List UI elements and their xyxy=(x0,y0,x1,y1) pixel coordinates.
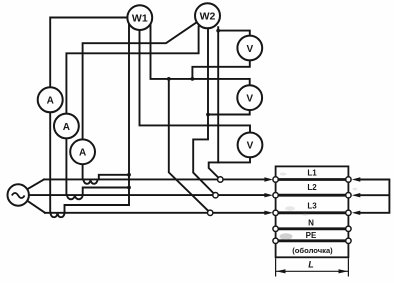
arrow from bracket into right terminal L3 xyxy=(352,211,361,215)
wire W1 bottom-middle vertical to V3 top xyxy=(140,30,251,133)
current transformer bumps phase L1 xyxy=(84,179,98,183)
wire A1 bottom to phase L3 line xyxy=(49,112,51,212)
wire V2 bottom branch xyxy=(208,110,250,114)
voltmeter V2 xyxy=(237,85,262,110)
conductor bar PE xyxy=(276,239,348,242)
svg-text:L1: L1 xyxy=(307,168,317,177)
wire vertical tap to terminal circle 3 xyxy=(169,79,210,213)
terminal right L2 xyxy=(346,193,351,198)
wire A2 bottom to phase L2 line xyxy=(65,138,67,195)
dimension line xyxy=(276,270,349,272)
conductor bar N xyxy=(276,227,348,230)
junction dot phase L1 branch at W1 vertical xyxy=(127,173,131,177)
wire source lower diagonal xyxy=(27,201,45,213)
junction dot on V1 top tap xyxy=(216,29,220,33)
scan noise smudges xyxy=(280,173,358,240)
wire A3 bottom to phase L1 line xyxy=(82,164,84,179)
svg-text:V: V xyxy=(246,44,253,55)
svg-text:L: L xyxy=(308,260,314,270)
dimension arrow left xyxy=(276,269,286,273)
svg-text:L3: L3 xyxy=(307,202,317,211)
wire right side short-circuit bracket xyxy=(361,180,390,213)
arrow into box terminal L2 xyxy=(264,193,273,197)
dimension extension lines xyxy=(276,258,349,276)
conductor bar L2 xyxy=(276,194,348,197)
wire phase L3 main line xyxy=(45,212,265,214)
wire phase L3 branch after bumps xyxy=(65,205,130,213)
terminal right N xyxy=(346,226,351,231)
terminal circle node 3 on L3 xyxy=(208,210,213,215)
wattmeter W1 xyxy=(127,5,152,30)
wire phase L1 branch after bumps xyxy=(99,175,129,180)
ammeter A2 xyxy=(54,114,79,139)
svg-text:A: A xyxy=(79,148,86,159)
terminal left N xyxy=(273,226,278,231)
terminal right L3 xyxy=(346,210,351,215)
svg-text:V: V xyxy=(247,141,254,152)
svg-text:A: A xyxy=(63,122,70,133)
voltmeter V3 xyxy=(238,133,263,158)
wire V1 bottom branch xyxy=(192,60,249,79)
wire phase L2 main line xyxy=(29,194,265,196)
svg-text:A: A xyxy=(47,96,54,107)
junction dot on V2 top wire at tap down xyxy=(167,77,171,81)
voltmeter V1 xyxy=(237,36,262,61)
svg-text:N: N xyxy=(308,218,314,227)
box terminal circles left edge xyxy=(273,177,351,244)
arrow from bracket into right terminal L2 xyxy=(352,193,361,197)
terminal left L1 xyxy=(273,177,278,182)
wire W2 left terminal diagonal to A3 chain xyxy=(83,22,197,139)
terminal circle node 2 on L2 xyxy=(213,193,218,198)
ammeter A3 xyxy=(70,139,95,164)
junction dot V2 bottom branch xyxy=(206,113,210,117)
wire W2 bottom-middle vertical with jog to terminal circle 2 xyxy=(193,28,215,196)
wire V1 top to W2 right vertical xyxy=(218,31,250,36)
junction dot V1 bottom branch xyxy=(191,77,195,81)
svg-text:PE: PE xyxy=(306,231,317,240)
wattmeter W2 xyxy=(195,3,220,28)
junction dot phase L2 branch at W1 vertical xyxy=(127,186,131,190)
wire V3 bottom branch xyxy=(218,157,250,162)
wire W1 left terminal to A1 top xyxy=(50,18,127,88)
terminal left L3 xyxy=(273,210,278,215)
wire W2 bottom-right vertical to terminal circle 1 xyxy=(209,27,221,179)
conductor bar L1 xyxy=(276,178,348,181)
wire source upper diagonal xyxy=(27,179,44,189)
current transformer bumps phase L3 xyxy=(51,213,65,217)
conductor bar L3 xyxy=(276,211,348,214)
wire phase L1 main line xyxy=(44,178,265,180)
arrow into box terminal L3 xyxy=(264,211,273,215)
AC source xyxy=(8,184,29,205)
terminal right PE xyxy=(346,238,351,243)
dimension arrow right xyxy=(339,269,349,273)
svg-text:(оболочка): (оболочка) xyxy=(292,246,333,255)
arrow from bracket into right terminal L1 xyxy=(352,177,361,181)
terminal left L2 xyxy=(273,193,278,198)
terminal right L1 xyxy=(346,177,351,182)
ammeter A1 xyxy=(38,87,63,112)
cable sample box outline xyxy=(276,166,349,257)
wire W1 bottom-right vertical to V2 top xyxy=(151,24,250,85)
svg-text:W2: W2 xyxy=(200,11,216,23)
terminal left PE xyxy=(273,238,278,243)
arrow into box terminal L1 xyxy=(264,177,273,181)
svg-text:V: V xyxy=(246,94,253,105)
wire W1 bottom-left vertical down to phase taps xyxy=(128,24,130,205)
wire W2 bottom-left vertical to A2 chain xyxy=(66,27,198,114)
terminal circle node 1 on L1 xyxy=(218,177,223,182)
wire phase L2 branch after bumps xyxy=(83,188,129,196)
svg-text:L2: L2 xyxy=(307,183,317,192)
current transformer bumps phase L2 xyxy=(67,195,83,199)
svg-text:W1: W1 xyxy=(132,12,148,24)
